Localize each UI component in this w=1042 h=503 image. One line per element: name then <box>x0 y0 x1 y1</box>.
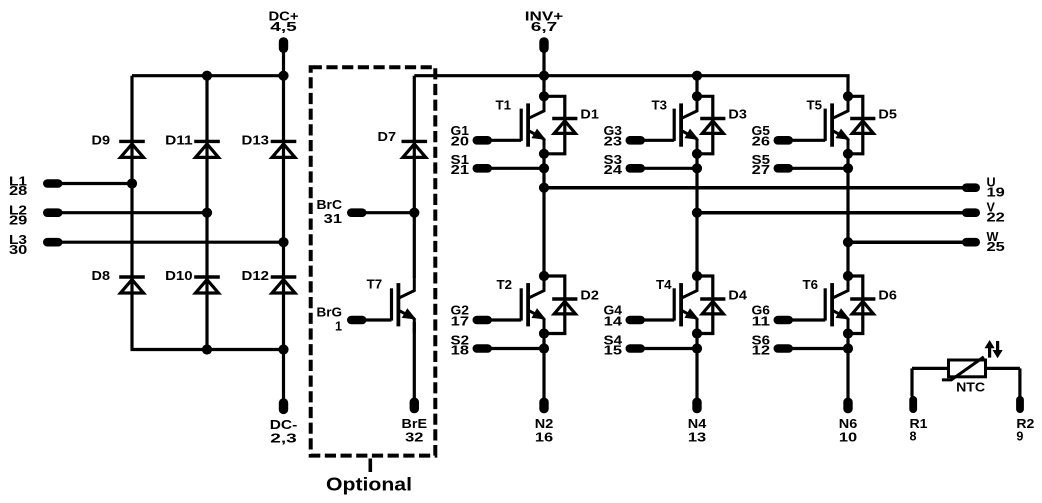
svg-text:T1: T1 <box>496 98 512 112</box>
svg-text:D8: D8 <box>92 269 111 283</box>
svg-text:D1: D1 <box>580 108 599 122</box>
svg-text:9: 9 <box>1016 430 1023 444</box>
svg-text:D9: D9 <box>92 134 111 148</box>
svg-text:17: 17 <box>451 314 469 328</box>
svg-text:24: 24 <box>604 163 622 177</box>
svg-text:10: 10 <box>839 431 857 445</box>
svg-text:D4: D4 <box>728 288 747 302</box>
svg-text:22: 22 <box>987 210 1005 224</box>
svg-text:D10: D10 <box>165 269 193 283</box>
svg-text:D11: D11 <box>165 134 193 148</box>
svg-text:N6: N6 <box>839 417 858 431</box>
svg-text:BrG: BrG <box>317 305 343 319</box>
svg-text:D6: D6 <box>878 288 897 302</box>
svg-text:T2: T2 <box>497 278 513 292</box>
svg-text:29: 29 <box>9 213 27 227</box>
svg-text:28: 28 <box>9 184 27 198</box>
svg-text:11: 11 <box>752 314 770 328</box>
svg-text:2,3: 2,3 <box>270 432 297 446</box>
svg-text:N2: N2 <box>535 417 554 431</box>
svg-text:BrC: BrC <box>317 198 343 212</box>
svg-text:T3: T3 <box>652 98 668 112</box>
svg-text:26: 26 <box>752 135 770 149</box>
svg-text:12: 12 <box>752 343 770 357</box>
svg-text:D7: D7 <box>378 130 397 144</box>
svg-text:25: 25 <box>987 240 1005 254</box>
svg-text:4,5: 4,5 <box>270 20 297 34</box>
svg-text:20: 20 <box>451 135 469 149</box>
svg-text:32: 32 <box>405 431 423 445</box>
svg-text:NTC: NTC <box>956 381 985 395</box>
svg-text:6,7: 6,7 <box>531 20 558 34</box>
svg-text:N4: N4 <box>688 417 707 431</box>
svg-text:DC-: DC- <box>270 418 298 432</box>
svg-text:D5: D5 <box>878 108 897 122</box>
svg-text:14: 14 <box>604 314 622 328</box>
svg-text:D3: D3 <box>728 108 747 122</box>
svg-text:Optional: Optional <box>326 473 412 494</box>
svg-text:27: 27 <box>752 163 770 177</box>
svg-text:30: 30 <box>9 243 27 257</box>
svg-text:21: 21 <box>451 163 469 177</box>
svg-text:23: 23 <box>604 135 622 149</box>
svg-text:18: 18 <box>451 343 469 357</box>
svg-text:31: 31 <box>324 212 342 226</box>
svg-text:D2: D2 <box>580 288 599 302</box>
svg-text:T7: T7 <box>367 278 383 292</box>
svg-text:BrE: BrE <box>402 417 428 431</box>
svg-text:T4: T4 <box>656 278 672 292</box>
svg-text:D13: D13 <box>242 134 270 148</box>
svg-text:13: 13 <box>688 431 706 445</box>
svg-text:T6: T6 <box>803 278 819 292</box>
svg-text:T5: T5 <box>807 98 823 112</box>
svg-text:16: 16 <box>535 431 553 445</box>
svg-text:15: 15 <box>604 343 622 357</box>
svg-text:8: 8 <box>910 430 917 444</box>
svg-text:19: 19 <box>987 185 1005 199</box>
svg-text:D12: D12 <box>242 269 270 283</box>
svg-text:1: 1 <box>335 319 342 333</box>
